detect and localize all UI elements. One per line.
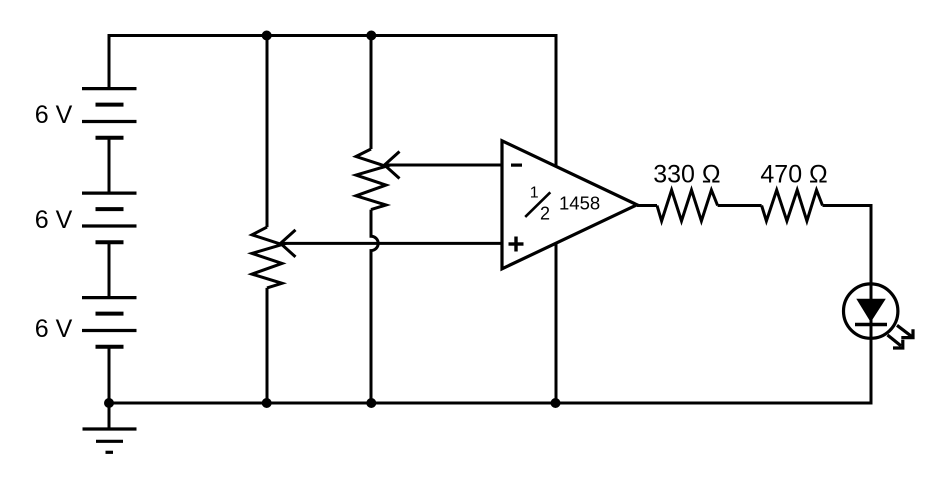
LED D1 circle (844, 284, 898, 338)
label B2: 6 V (35, 206, 73, 234)
wire op-amp V+ supply (555, 36, 558, 169)
wire B3 to bottom rail (108, 347, 111, 403)
svg-text:1: 1 (530, 185, 539, 202)
wire bottom rail (108, 402, 873, 405)
node: bottom rail / op-amp V- junction (551, 398, 561, 408)
svg-text:6 V: 6 V (35, 315, 73, 343)
LED emission arrow 2 (888, 335, 903, 348)
svg-text:330 Ω: 330 Ω (653, 160, 720, 188)
svg-text:2: 2 (540, 204, 550, 224)
wire battery top to rail (108, 34, 111, 89)
svg-text:470 Ω: 470 Ω (760, 160, 827, 188)
op-amp label 1458 (559, 192, 600, 213)
label B1: 6 V (35, 101, 73, 129)
node: bottom rail / R2 junction (366, 398, 376, 408)
op-amp U1 triangle (502, 141, 637, 269)
resistor R4 470 ohm (762, 190, 823, 221)
LED emission arrow 1 (897, 325, 913, 337)
node: top rail / R2 junction (366, 31, 376, 41)
node: bottom rail / battery junction (104, 398, 114, 408)
svg-text:6 V: 6 V (35, 206, 73, 234)
svg-text:1458: 1458 (559, 192, 600, 213)
LED D1 cathode bar (855, 323, 887, 326)
resistor R3 330 ohm (657, 190, 718, 221)
node: bottom rail / R1 junction (262, 398, 272, 408)
wiper arrow R1 to op-amp + input (281, 230, 503, 257)
ground (83, 403, 137, 452)
label R4: 470 ohm (760, 160, 827, 188)
battery B1 (6 V) (82, 89, 137, 138)
op-amp label 1/2 (525, 185, 550, 224)
wire top rail (108, 34, 558, 37)
label B3: 6 V (35, 315, 73, 343)
potentiometer R1 body (left) (252, 227, 282, 288)
wire LED branch vertical (870, 206, 873, 404)
LED D1 diode triangle (856, 299, 886, 323)
wire B1 to B2 (108, 138, 111, 193)
node: top rail / R1 junction (262, 31, 272, 41)
wire pot R2 top (from top rail) (370, 36, 373, 150)
wire R3 to R4 (718, 204, 762, 207)
op-amp non-inverting input symbol (+) (509, 237, 524, 252)
wire pot R1 top (from top rail) (266, 36, 269, 228)
battery B3 (6 V) (82, 298, 137, 347)
wiper arrow R2 to op-amp - input (385, 152, 503, 179)
op-amp inverting input symbol (-) (511, 164, 522, 167)
label R3: 330 ohm (653, 160, 720, 188)
wire R4 to LED corner (823, 204, 873, 207)
wire op-amp output (637, 204, 657, 207)
battery B2 (6 V) (82, 193, 137, 242)
wire pot R1 bottom (266, 288, 269, 403)
potentiometer R2 body (right) (356, 149, 386, 210)
wire B2 to B3 (108, 242, 111, 297)
svg-text:6 V: 6 V (35, 101, 73, 129)
wire pot R2 bottom with hop over + wire (371, 210, 378, 403)
wire op-amp V- supply (555, 242, 558, 403)
